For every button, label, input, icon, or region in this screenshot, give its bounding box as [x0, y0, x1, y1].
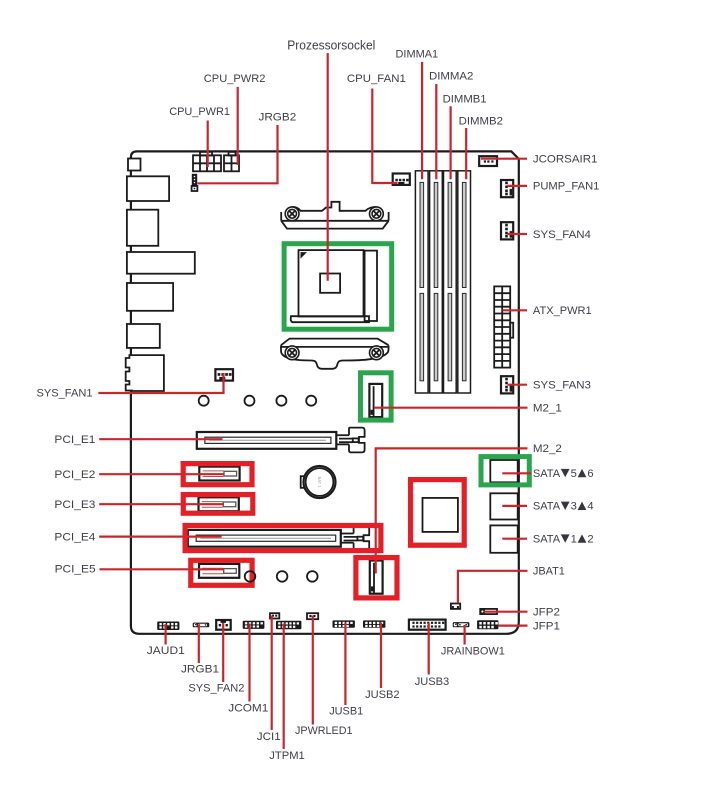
svg-text:SATA: SATA	[533, 534, 561, 546]
svg-text:JTPM1: JTPM1	[269, 750, 305, 762]
svg-text:2: 2	[587, 534, 593, 546]
svg-text:SYS_FAN3: SYS_FAN3	[533, 379, 591, 391]
svg-text:BAT 1: BAT 1	[317, 476, 323, 488]
svg-text:SYS_FAN4: SYS_FAN4	[533, 229, 591, 241]
svg-text:JUSB3: JUSB3	[415, 676, 450, 688]
svg-text:DIMMA2: DIMMA2	[429, 71, 473, 83]
svg-text:SATA: SATA	[533, 468, 561, 480]
svg-text:1: 1	[571, 534, 577, 546]
svg-text:JFP2: JFP2	[533, 607, 560, 619]
svg-text:6: 6	[587, 468, 593, 480]
svg-text:JRGB1: JRGB1	[181, 664, 219, 676]
svg-text:4: 4	[587, 501, 593, 513]
svg-text:JUSB1: JUSB1	[329, 706, 363, 718]
svg-text:CPU_FAN1: CPU_FAN1	[347, 73, 406, 85]
svg-text:3: 3	[571, 501, 577, 513]
svg-text:DIMMB1: DIMMB1	[443, 94, 487, 106]
svg-text:Prozessorsockel: Prozessorsockel	[287, 39, 375, 53]
svg-text:M2_2: M2_2	[533, 443, 562, 455]
svg-text:PCI_E1: PCI_E1	[54, 434, 95, 446]
svg-text:5: 5	[571, 468, 577, 480]
svg-text:JAUD1: JAUD1	[147, 645, 185, 657]
svg-text:PCI_E3: PCI_E3	[54, 499, 95, 511]
svg-text:JRAINBOW1: JRAINBOW1	[441, 645, 505, 657]
svg-text:JPWRLED1: JPWRLED1	[295, 725, 353, 737]
svg-text:CPU_PWR2: CPU_PWR2	[204, 73, 266, 85]
svg-text:PCI_E2: PCI_E2	[54, 469, 95, 481]
svg-text:JBAT1: JBAT1	[533, 566, 565, 578]
svg-text:JFP1: JFP1	[533, 620, 560, 632]
svg-text:DIMMA1: DIMMA1	[396, 48, 439, 60]
svg-text:CPU_PWR1: CPU_PWR1	[169, 106, 230, 118]
svg-text:SYS_FAN2: SYS_FAN2	[188, 683, 244, 695]
svg-text:JUSB2: JUSB2	[365, 689, 400, 701]
svg-text:SATA: SATA	[533, 501, 561, 513]
svg-text:JRGB2: JRGB2	[259, 112, 297, 124]
svg-text:DIMMB2: DIMMB2	[459, 115, 503, 127]
svg-text:JCOM1: JCOM1	[228, 702, 268, 714]
svg-text:PCI_E4: PCI_E4	[54, 531, 95, 543]
svg-text:PCI_E5: PCI_E5	[55, 564, 96, 576]
svg-text:SYS_FAN1: SYS_FAN1	[37, 387, 93, 399]
svg-text:ATX_PWR1: ATX_PWR1	[533, 305, 592, 317]
svg-text:M2_1: M2_1	[533, 403, 562, 415]
svg-text:PUMP_FAN1: PUMP_FAN1	[533, 180, 600, 192]
svg-text:JCORSAIR1: JCORSAIR1	[533, 154, 598, 166]
svg-text:JCI1: JCI1	[257, 731, 281, 743]
